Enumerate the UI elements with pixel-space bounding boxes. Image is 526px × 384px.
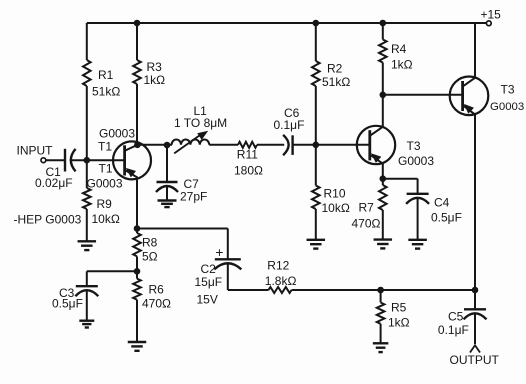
- wire junction to T3 mid collector: [382, 95, 384, 127]
- wire T1 base: [87, 159, 125, 161]
- svg-text:1kΩ: 1kΩ: [391, 58, 413, 72]
- svg-text:+15: +15: [481, 8, 502, 22]
- wire C2 top lead: [227, 229, 229, 260]
- wire R7 bottom lead: [382, 210, 384, 240]
- resistor R10: [312, 186, 320, 210]
- wire T1 emitter: [136, 178, 138, 229]
- wire C1 to base node: [71, 159, 87, 161]
- output arrow: [470, 345, 480, 352]
- svg-text:1kΩ: 1kΩ: [388, 316, 410, 330]
- resistor R1: [83, 60, 91, 86]
- inductor L1: [172, 131, 210, 154]
- svg-text:10kΩ: 10kΩ: [92, 212, 120, 226]
- node R5 tap: [377, 287, 384, 294]
- svg-text:G0003: G0003: [398, 154, 434, 168]
- node T1 emitter R8: [134, 225, 141, 232]
- svg-text:G0003: G0003: [87, 177, 123, 191]
- wire emitter node to C2: [137, 228, 228, 230]
- svg-text:R2: R2: [327, 62, 343, 76]
- svg-text:10kΩ: 10kΩ: [322, 201, 350, 215]
- wire R12 to R5 node: [292, 289, 381, 291]
- node rail-R4: [380, 20, 387, 27]
- node emitter R7 C4: [380, 175, 387, 182]
- node R10 tap: [313, 142, 320, 149]
- ground R9: [78, 241, 97, 250]
- wire R9 bottom lead: [86, 209, 88, 241]
- svg-text:R10: R10: [324, 187, 346, 201]
- resistor R7: [379, 185, 387, 210]
- resistor R8: [133, 233, 141, 256]
- svg-text:R6: R6: [149, 283, 165, 297]
- wire C4 top lead: [417, 179, 419, 194]
- wire T3 mid emitter: [382, 164, 384, 179]
- svg-text:R9: R9: [97, 197, 113, 211]
- wire R2 bottom lead: [315, 86, 317, 145]
- svg-text:1kΩ: 1kΩ: [144, 73, 166, 87]
- node rail-R2: [313, 20, 320, 27]
- svg-text:27pF: 27pF: [180, 190, 207, 204]
- wire R6 top lead: [136, 271, 138, 278]
- svg-text:R12: R12: [267, 259, 289, 273]
- ground C4: [408, 240, 427, 249]
- wire C6 to base node: [293, 144, 316, 146]
- wire C7 bottom lead: [166, 186, 168, 200]
- ground R6: [128, 342, 147, 351]
- wire base node to T3 mid: [316, 144, 370, 146]
- wire C4 bottom lead: [417, 198, 419, 240]
- svg-text:51kΩ: 51kΩ: [92, 85, 120, 99]
- wire node to C3: [87, 270, 137, 272]
- svg-text:1 TO 8μM: 1 TO 8μM: [174, 116, 227, 130]
- resistor R4: [379, 40, 387, 63]
- capacitor C3: [75, 286, 98, 296]
- svg-text:0.5μF: 0.5μF: [431, 211, 462, 225]
- node input-base junction: [84, 157, 91, 164]
- wire C7 top lead: [166, 145, 168, 182]
- wire C3 bottom lead: [86, 291, 88, 321]
- wire T3 top collector to rail: [474, 23, 476, 78]
- svg-text:G0003: G0003: [490, 101, 524, 113]
- node C7 tap: [164, 142, 171, 149]
- wire R8 bottom lead: [136, 256, 138, 271]
- terminal +15: [486, 21, 491, 26]
- wire R1 bottom lead: [86, 86, 88, 160]
- svg-text:C5: C5: [448, 309, 464, 323]
- svg-text:R1: R1: [98, 68, 114, 82]
- svg-text:R4: R4: [391, 42, 407, 56]
- svg-text:0.5μF: 0.5μF: [52, 297, 83, 311]
- terminal INPUT: [41, 158, 46, 163]
- svg-text:OUTPUT: OUTPUT: [450, 353, 500, 367]
- node T1 collector: [134, 142, 141, 149]
- resistor R11: [238, 142, 257, 148]
- svg-text:0.1μF: 0.1μF: [438, 323, 469, 337]
- resistor R12: [269, 287, 292, 293]
- capacitor C4: [406, 194, 429, 204]
- wire top +15 rail: [87, 22, 487, 24]
- svg-text:5Ω: 5Ω: [142, 250, 158, 264]
- svg-text:R11: R11: [237, 148, 258, 162]
- wire R3 bottom lead: [136, 84, 138, 145]
- ground R10: [307, 240, 326, 249]
- wire C2 to R12: [228, 289, 269, 291]
- wire R5 bottom lead: [380, 324, 382, 344]
- capacitor C2: [214, 259, 241, 269]
- wire R1 top lead: [86, 23, 88, 60]
- capacitor C5: [464, 309, 487, 319]
- svg-text:R7: R7: [359, 201, 375, 215]
- wire R3 top lead: [136, 23, 138, 60]
- wire L1 to R11: [209, 144, 238, 146]
- wire C5 bottom lead: [474, 314, 476, 345]
- svg-text:+: +: [216, 245, 224, 260]
- svg-text:R5: R5: [391, 301, 407, 315]
- wire R7 top lead: [382, 179, 384, 185]
- resistor R5: [377, 303, 385, 324]
- wire R9 top lead: [86, 160, 88, 188]
- wire R4 bottom lead: [382, 63, 384, 95]
- transistor T3 top: [450, 77, 489, 116]
- ground C7: [158, 201, 177, 208]
- node R4 base junction: [380, 92, 387, 99]
- svg-text:-HEP G0003: -HEP G0003: [14, 213, 82, 227]
- svg-text:470Ω: 470Ω: [352, 217, 381, 231]
- resistor R6: [133, 279, 141, 300]
- svg-text:0.02μF: 0.02μF: [35, 176, 73, 190]
- svg-text:C4: C4: [434, 196, 450, 210]
- capacitor C7: [156, 182, 178, 192]
- wire C3 top lead: [86, 271, 88, 286]
- wire input lead: [46, 159, 65, 161]
- svg-text:INPUT: INPUT: [17, 144, 54, 158]
- node R8 R6 C3: [134, 268, 141, 275]
- transistor T3 middle: [357, 126, 395, 164]
- ground R5: [373, 343, 389, 352]
- capacitor C6: [283, 135, 293, 155]
- svg-text:G0003: G0003: [99, 127, 135, 141]
- svg-text:R3: R3: [147, 60, 163, 74]
- svg-text:R8: R8: [142, 236, 158, 250]
- transistor T1: [113, 141, 151, 179]
- wire collector node to L1: [137, 144, 172, 146]
- wire C5 top lead: [474, 290, 476, 309]
- svg-text:1.8kΩ: 1.8kΩ: [265, 274, 297, 288]
- svg-text:T3: T3: [407, 139, 421, 153]
- wire R5 node to output node: [381, 289, 475, 291]
- wire emitter to C4: [383, 178, 418, 180]
- ground R7: [374, 240, 393, 249]
- resistor R3: [133, 60, 141, 84]
- wire base T3 top: [383, 94, 463, 96]
- wire R2 top lead: [315, 23, 317, 61]
- wire R8 top lead: [136, 229, 138, 234]
- wire T3 top emitter down: [474, 114, 476, 290]
- svg-text:180Ω: 180Ω: [234, 164, 263, 178]
- svg-text:15V: 15V: [197, 293, 218, 307]
- svg-text:T1: T1: [98, 140, 112, 154]
- wire R11 to C6: [257, 144, 284, 146]
- wire R10 top lead: [315, 145, 317, 186]
- wire R10 bottom lead: [315, 209, 317, 240]
- svg-text:15μF: 15μF: [195, 275, 223, 289]
- wire R4 top lead: [382, 23, 384, 40]
- node rail-R3: [134, 20, 141, 27]
- wire R6 bottom lead: [136, 300, 138, 342]
- node output C5: [472, 287, 479, 294]
- svg-text:T3: T3: [501, 83, 515, 97]
- svg-text:C2: C2: [201, 262, 217, 276]
- resistor R2: [312, 61, 320, 86]
- wire C2 bottom lead: [227, 264, 229, 290]
- svg-text:470Ω: 470Ω: [142, 297, 171, 311]
- resistor R9: [83, 188, 91, 209]
- svg-text:51kΩ: 51kΩ: [322, 75, 350, 89]
- svg-text:0.1μF: 0.1μF: [274, 118, 305, 132]
- svg-text:T1: T1: [99, 162, 113, 176]
- wire R5 top lead: [380, 290, 382, 303]
- capacitor C1: [65, 149, 76, 172]
- ground C3: [79, 321, 94, 328]
